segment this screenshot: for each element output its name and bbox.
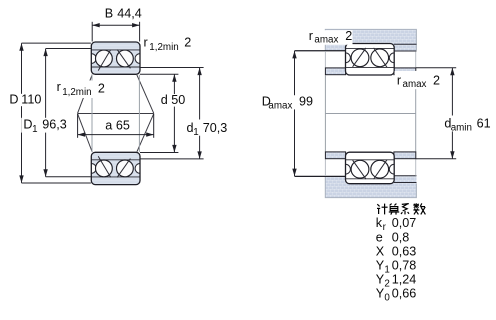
svg-text:110: 110 <box>21 93 41 107</box>
svg-text:1: 1 <box>193 127 198 138</box>
svg-text:1: 1 <box>384 265 389 276</box>
svg-text:96,3: 96,3 <box>42 118 67 132</box>
svg-text:0,07: 0,07 <box>392 216 417 230</box>
svg-text:61: 61 <box>477 117 491 131</box>
svg-text:d: d <box>161 93 168 107</box>
svg-text:e: e <box>376 230 383 244</box>
svg-text:0,66: 0,66 <box>392 287 417 301</box>
svg-text:2: 2 <box>433 73 440 87</box>
svg-text:65: 65 <box>116 119 130 133</box>
svg-text:0,78: 0,78 <box>392 259 417 273</box>
svg-text:X: X <box>376 244 385 258</box>
svg-text:0: 0 <box>384 293 390 304</box>
svg-text:amax: amax <box>268 100 292 111</box>
svg-text:a: a <box>105 119 112 133</box>
svg-text:r: r <box>144 35 148 49</box>
svg-text:amax: amax <box>403 79 427 90</box>
svg-text:2: 2 <box>384 279 389 290</box>
svg-text:amax: amax <box>314 35 338 46</box>
svg-text:99: 99 <box>299 95 313 109</box>
svg-text:0,63: 0,63 <box>392 244 417 258</box>
svg-text:2: 2 <box>98 82 105 96</box>
svg-text:70,3: 70,3 <box>203 121 228 135</box>
svg-text:50: 50 <box>171 93 185 107</box>
svg-text:D: D <box>9 93 18 107</box>
svg-text:amin: amin <box>451 122 472 133</box>
svg-text:r: r <box>397 73 401 87</box>
svg-text:1,2min: 1,2min <box>149 42 178 53</box>
svg-text:B: B <box>105 6 113 20</box>
svg-text:r: r <box>57 80 61 94</box>
svg-text:0,8: 0,8 <box>392 230 410 244</box>
svg-text:r: r <box>309 29 313 43</box>
svg-text:2: 2 <box>345 29 352 43</box>
svg-text:44,4: 44,4 <box>117 6 142 20</box>
svg-text:1,2min: 1,2min <box>62 87 91 98</box>
svg-text:1: 1 <box>32 124 37 135</box>
svg-text:2: 2 <box>184 35 191 49</box>
svg-text:1,24: 1,24 <box>392 273 417 287</box>
